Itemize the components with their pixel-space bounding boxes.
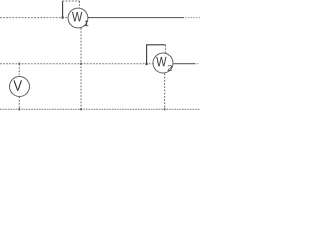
wattmeter W2 bracket solid vertical wire: [146, 45, 148, 64]
wattmeter W2 circle: [153, 53, 173, 73]
voltmeter V circle: [10, 77, 30, 97]
wattmeter W1 bracket dashed horizontal wire: [63, 0, 80, 2]
wire: dotted vertical from W1 bottom down to bottom line: [80, 28, 82, 109]
wattmeter W1 bracket dotted vertical wire to circle top: [78, 1, 80, 8]
wattmeter W2 bracket solid horizontal wire: [146, 44, 166, 46]
wattmeter W2 subscript 2: [168, 65, 173, 70]
junction: W1 bracket meets line A: [62, 16, 64, 18]
voltmeter V label: [13, 80, 22, 90]
wattmeter W1 bracket solid vertical wire: [62, 1, 64, 18]
wattmeter W1 circle: [68, 8, 88, 28]
junction: W1 branch crosses line B: [80, 63, 82, 65]
wire: bottom line D dashed full width: [0, 108, 200, 110]
wire: middle line B solid segment right of W2: [174, 63, 196, 65]
wire: top line A right dashed segment: [185, 17, 200, 19]
wire: top line A solid segment right of W1: [88, 17, 184, 19]
wattmeter W1 label W: [72, 12, 82, 21]
junction: V branch meets line B: [19, 63, 21, 65]
wattmeter W2 bracket dotted vertical wire to circle top: [165, 45, 167, 53]
wire: middle line B dashed segment: [0, 63, 153, 65]
junction: V branch meets bottom line: [19, 108, 21, 110]
junction: W2 branch meets bottom line: [164, 108, 166, 110]
wire: middle line B right end dash: [197, 63, 199, 65]
wire: dotted vertical from voltmeter bottom down to bottom line: [18, 97, 20, 110]
wattmeter W1 subscript 1: [85, 21, 88, 26]
wattmeter W2 label W: [156, 57, 166, 66]
wire: dotted vertical from line B down to voltmeter top: [18, 64, 20, 77]
wire: top line A left dashed segment: [0, 17, 68, 19]
junction: W1 branch meets bottom line: [80, 108, 82, 110]
wire: dotted vertical from W2 bottom down to bottom line: [164, 74, 166, 110]
junction: W2 bracket meets line B: [146, 63, 148, 66]
